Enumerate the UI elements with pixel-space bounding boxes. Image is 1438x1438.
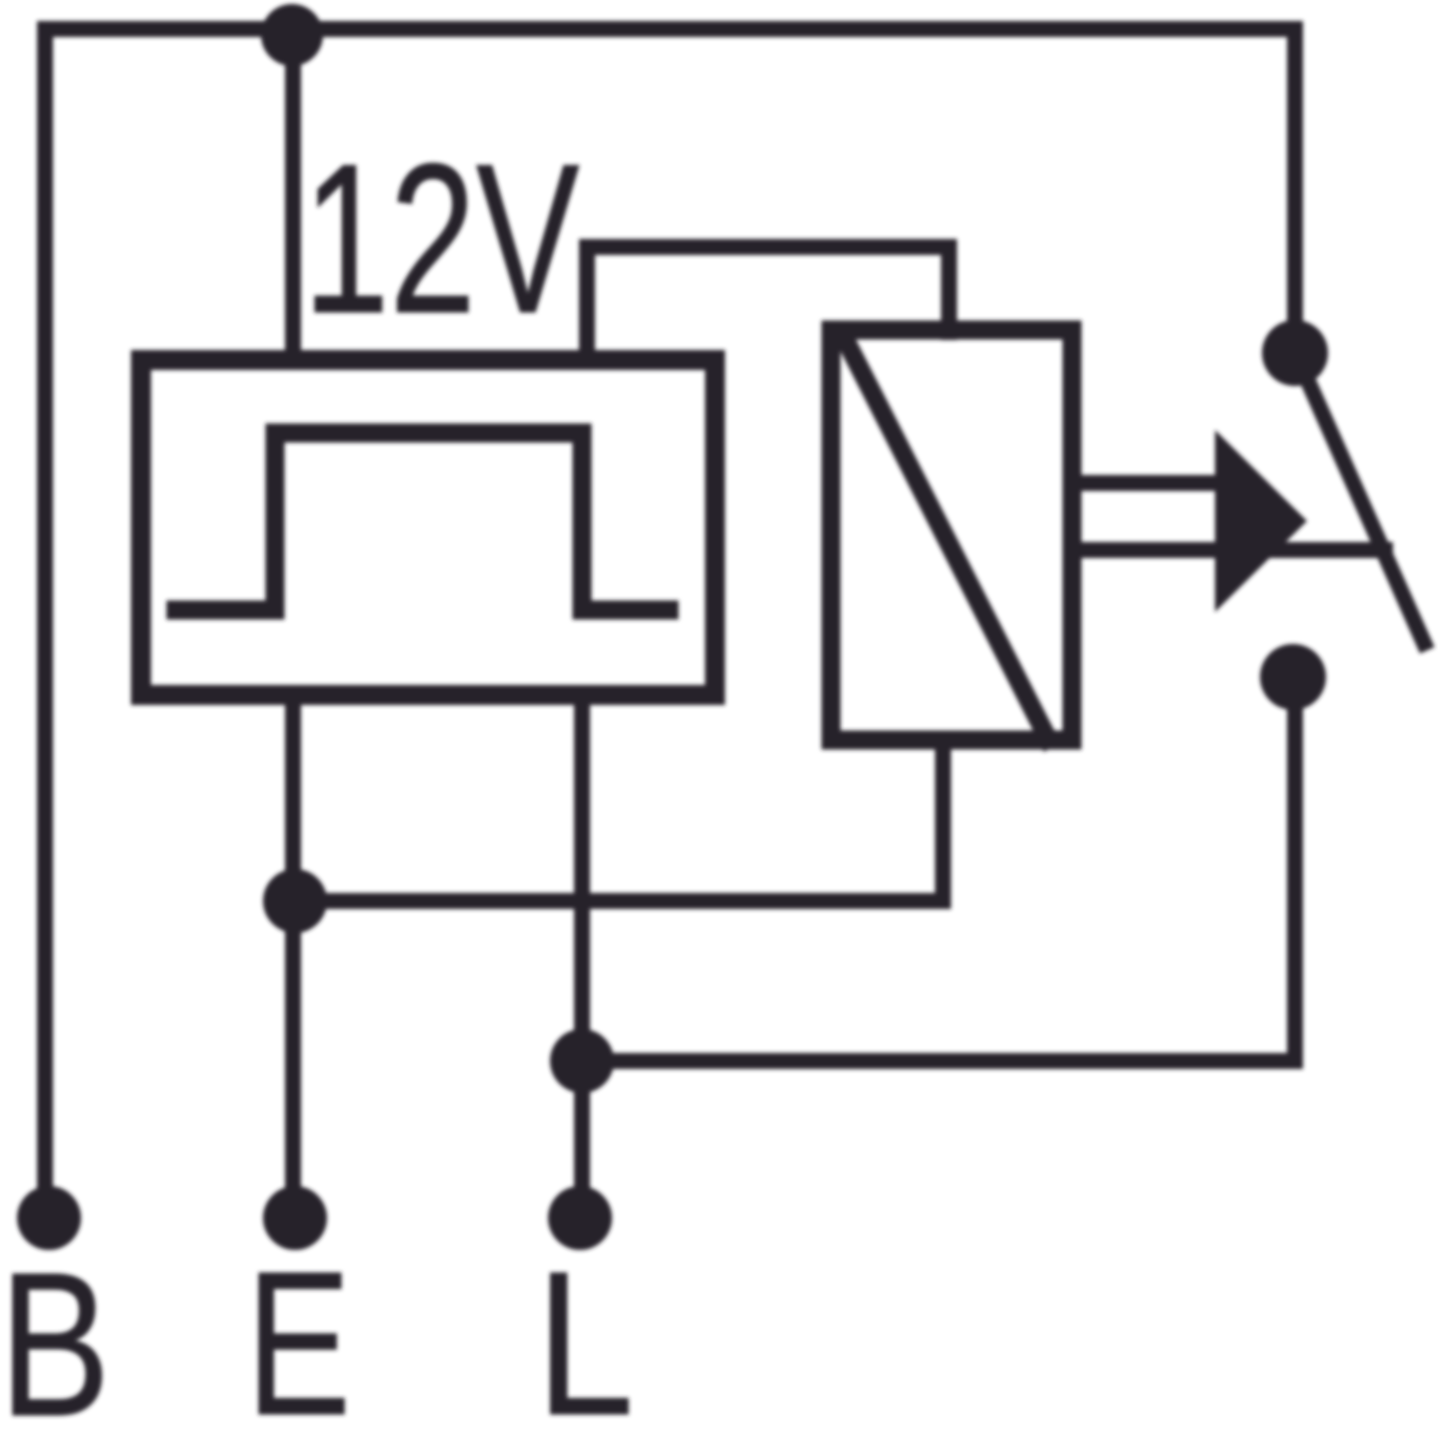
node junction dot top rail (261, 4, 323, 66)
label 12V supply (303, 119, 580, 358)
svg-text:B: B (0, 1230, 110, 1438)
switch S1 fixed contact dot (top) (1262, 320, 1328, 386)
flasher unit box U1 (141, 360, 715, 695)
wire from U1 top to relay coil top (12V net) (587, 247, 949, 360)
wire right rail upper (1287, 29, 1303, 348)
terminal label L (536, 1229, 634, 1438)
terminal L dot (548, 1186, 612, 1250)
wire U1 bottom left leg to E terminal (285, 695, 301, 1205)
wire relay coil bottom return (935, 740, 951, 901)
terminal E dot (263, 1186, 327, 1250)
wire coil output lower line (1072, 542, 1385, 558)
terminal B dot (17, 1186, 81, 1250)
wire L net horizontal (582, 1053, 1295, 1069)
wire coil output upper line (1072, 475, 1232, 491)
wire from top rail to flasher box top (285, 31, 301, 362)
switch S1 blade (1300, 363, 1424, 643)
wire left rail (B to top) (37, 29, 53, 1205)
pulse waveform symbol inside U1 (176, 433, 669, 610)
terminal label E (246, 1229, 351, 1438)
node junction dot L net (550, 1029, 614, 1093)
svg-text:12V: 12V (303, 119, 580, 358)
relay coil diagonal stroke (845, 339, 1048, 739)
wire U1 bottom right leg to L terminal (574, 695, 590, 1205)
actuator arrow head (1215, 430, 1307, 612)
terminal label B (0, 1230, 110, 1438)
svg-text:L: L (536, 1229, 634, 1438)
switch S1 moving contact dot (bottom) (1260, 644, 1326, 710)
relay coil K1 box (831, 330, 1072, 740)
wire top supply rail (45, 21, 1295, 37)
node junction dot E net (263, 869, 327, 933)
wire E net horizontal to coil return (295, 893, 943, 909)
wire right rail lower (switch to L net) (1287, 678, 1303, 1061)
svg-text:E: E (246, 1229, 351, 1438)
